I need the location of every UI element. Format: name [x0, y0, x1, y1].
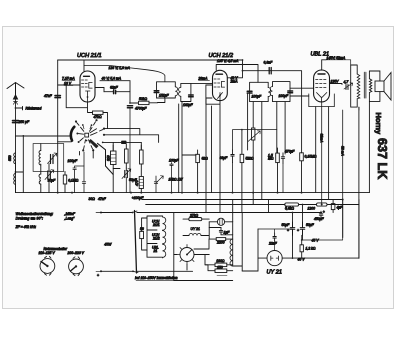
wire tube1 anode feed — [83, 60, 85, 71]
svg-text:61mA: 61mA — [319, 134, 323, 144]
capacitor 6,8nF series — [264, 60, 274, 74]
svg-text:0,1MΩ: 0,1MΩ — [68, 179, 79, 183]
coil 310 — [107, 145, 117, 193]
wire detector verticals — [206, 98, 269, 222]
svg-text:62pF: 62pF — [110, 86, 119, 90]
trimmer pad — [122, 169, 138, 193]
svg-text:UY 21: UY 21 — [191, 227, 200, 231]
wire top rail — [58, 59, 243, 61]
wire speaker return — [368, 101, 370, 192]
svg-text:52 mA: 52 mA — [340, 146, 344, 157]
volume pot — [248, 128, 260, 193]
svg-text:+100μF: +100μF — [132, 196, 144, 200]
label Netzumschalter — [39, 247, 85, 255]
capacitor 100pF det — [169, 159, 180, 193]
svg-text:2mA: 2mA — [230, 80, 239, 84]
capacitor 150pF — [154, 91, 159, 93]
svg-text:28mA: 28mA — [198, 77, 209, 81]
resistor 15k 1W — [156, 176, 183, 183]
wire bottom bus D — [147, 212, 322, 214]
wire grid lead — [57, 60, 59, 193]
label 61mA rot — [319, 102, 323, 205]
svg-text:Horny: Horny — [374, 113, 383, 135]
wire osc box tie — [16, 136, 72, 193]
svg-text:0,15MΩ: 0,15MΩ — [305, 155, 317, 159]
label 135V 4,5mA — [217, 59, 239, 63]
svg-text:1200: 1200 — [308, 206, 316, 210]
svg-text:50kΩ: 50kΩ — [139, 97, 147, 101]
IF transformer 1 — [157, 82, 191, 102]
svg-text:6,8nF: 6,8nF — [264, 60, 274, 64]
capacitor 100pF ifa — [247, 91, 252, 93]
svg-text:6kΩ: 6kΩ — [202, 156, 209, 160]
capacitor padder series — [122, 141, 126, 143]
svg-text:50μF: 50μF — [282, 223, 291, 227]
tube UY21 — [242, 229, 359, 271]
label 145V 52mA — [326, 56, 351, 65]
capacitor 100pF ifb — [288, 91, 293, 93]
wire B+ right — [316, 107, 359, 259]
selector voltage — [177, 245, 197, 265]
capacitor 1uF lamp — [209, 222, 233, 235]
svg-text:„Mittel“: „Mittel“ — [64, 212, 76, 216]
wire heater links — [142, 218, 147, 250]
svg-text:4700pF: 4700pF — [135, 107, 147, 111]
svg-text:ZF = 452 kHz: ZF = 452 kHz — [15, 225, 37, 229]
svg-text:100pF: 100pF — [68, 159, 79, 163]
svg-text:162pF: 162pF — [183, 103, 194, 107]
svg-text:180Ω: 180Ω — [216, 259, 225, 263]
svg-text:„Lang“: „Lang“ — [64, 217, 76, 221]
resistor 27k — [183, 213, 209, 220]
label 40V 5,6mA — [102, 76, 122, 80]
wire osc tap — [103, 141, 142, 143]
svg-text:250 pF: 250 pF — [18, 120, 30, 124]
resistor 180 — [205, 255, 227, 267]
speaker LS — [369, 71, 391, 101]
svg-text:15kΩ 1W: 15kΩ 1W — [169, 178, 184, 182]
resistor 2200 — [209, 228, 233, 267]
coil L2b — [39, 171, 41, 192]
wire switch bottom leads — [80, 150, 94, 158]
node j1 — [129, 102, 131, 104]
capacitor blocking b — [154, 176, 157, 193]
coil L1b — [14, 174, 16, 185]
coil L2 — [39, 151, 41, 165]
rail C — [146, 200, 359, 205]
trimmer 30pF — [45, 170, 56, 183]
svg-text:470: 470 — [135, 180, 139, 186]
svg-text:4,7: 4,7 — [344, 80, 349, 84]
wire IF1 sec down — [181, 102, 183, 156]
resistor 100 vert — [125, 149, 129, 168]
wire to 50k — [116, 92, 138, 103]
svg-text:1μF: 1μF — [224, 230, 231, 234]
node Rueckwand dot — [15, 107, 17, 109]
switch Netz1 — [40, 256, 55, 275]
svg-text:151pF: 151pF — [159, 94, 170, 98]
capacitor 250pF — [13, 121, 19, 123]
svg-text:52kΩ: 52kΩ — [246, 156, 254, 160]
capacitor 162pF — [189, 95, 194, 97]
svg-text:21/2: 21/2 — [152, 237, 160, 241]
svg-text:Rückwand: Rückwand — [26, 107, 42, 111]
svg-text:637 LK: 637 LK — [375, 138, 389, 179]
wire Rueckwand stub — [16, 107, 23, 110]
wire selector ties — [174, 239, 233, 280]
capacitor blocking a — [82, 152, 85, 193]
box UBL21 shield — [309, 94, 335, 107]
wire switch to osc — [104, 129, 159, 143]
resistor 470 vert — [140, 145, 144, 176]
coil L1 antenna — [8, 153, 16, 164]
label 47nF bus — [89, 197, 107, 201]
svg-text:30Ω: 30Ω — [89, 197, 96, 201]
wire right frame — [343, 200, 359, 259]
wire tube1 pins — [58, 85, 104, 113]
svg-text:22nF: 22nF — [268, 241, 278, 245]
capacitor 470uF — [281, 149, 295, 192]
label 52mA rot — [340, 110, 344, 238]
coil UY21 heater — [183, 227, 209, 235]
resistor 1,2k — [300, 240, 316, 258]
resistor 0,15M vert — [300, 153, 317, 193]
band switch S1 — [71, 119, 113, 174]
svg-text:47nF: 47nF — [44, 94, 53, 98]
tone control 4,7nF — [344, 80, 353, 90]
svg-text:50μF: 50μF — [306, 223, 315, 227]
capacitor 47nF — [55, 96, 60, 98]
node antenna plug — [13, 102, 17, 105]
svg-text:1,2 kΩ: 1,2 kΩ — [306, 246, 316, 250]
svg-text:110–125 V: 110–125 V — [39, 251, 56, 255]
wire IF1 pri bottom — [158, 98, 165, 103]
node dots bus — [57, 192, 344, 206]
svg-text:UY 21: UY 21 — [267, 270, 282, 276]
svg-text:47nF: 47nF — [98, 197, 107, 201]
antenna — [7, 83, 24, 100]
resistor 1200 — [308, 203, 328, 210]
resistor 0,1M leak — [63, 171, 78, 192]
IF transformer 2 — [250, 82, 290, 102]
svg-text:45W: 45W — [104, 242, 112, 246]
resistor 150 — [205, 265, 233, 273]
label 7,15mA — [62, 76, 75, 85]
svg-text:470μF: 470μF — [285, 149, 296, 153]
node mains terminal bottom — [96, 270, 133, 277]
capacitor 50uF a — [282, 222, 295, 235]
svg-text:Drehung um 90°:: Drehung um 90°: — [16, 217, 43, 221]
svg-text:47kΩ: 47kΩ — [94, 115, 102, 119]
wire mid horizontals — [113, 142, 141, 170]
svg-text:550: 550 — [8, 155, 12, 161]
resistor 47k — [88, 111, 108, 129]
label kurzschliessen — [135, 276, 227, 281]
svg-text:450μF: 450μF — [314, 217, 325, 221]
wire screen 40V — [100, 81, 130, 92]
label 135V ubl — [331, 80, 340, 84]
ground bus — [16, 192, 370, 194]
svg-text:MΩ: MΩ — [268, 157, 274, 161]
wire switch left arc lead — [58, 141, 72, 143]
svg-text:135V: 135V — [331, 80, 340, 84]
svg-text:+: + — [297, 229, 299, 233]
wire tube2 pins — [191, 60, 258, 155]
tube UCH21/1 — [80, 71, 95, 102]
capacitor 450uF — [314, 210, 325, 221]
resistor 50k — [139, 101, 158, 104]
wire 45V — [302, 235, 343, 240]
svg-text:bei 110–150V kurzschließen: bei 110–150V kurzschließen — [135, 276, 178, 280]
label Wellenschalter text — [15, 212, 76, 229]
svg-text:100pF: 100pF — [279, 94, 290, 98]
node mains terminal top — [96, 212, 133, 214]
svg-text:21: 21 — [153, 249, 158, 253]
switch Netz2 — [69, 257, 84, 276]
switch mains DPST — [132, 211, 193, 274]
coil 470b — [135, 177, 143, 193]
oscillator coil box — [33, 144, 64, 172]
heater chain box — [147, 216, 166, 258]
svg-text:4μF: 4μF — [337, 206, 344, 210]
svg-text:2200: 2200 — [216, 241, 225, 245]
svg-text:100pF: 100pF — [169, 159, 180, 163]
resistor 5,6k — [285, 203, 299, 210]
capacitor 62pF — [114, 90, 116, 93]
capacitor 50uF b — [297, 222, 315, 235]
svg-text:UCH 21/1: UCH 21/1 — [77, 53, 102, 59]
svg-text:5,6kΩ: 5,6kΩ — [285, 206, 294, 210]
wire 50uF ties — [293, 205, 303, 259]
capacitor 100pF mid — [68, 159, 79, 163]
tube UBL21 — [314, 70, 330, 102]
svg-text:145V; 52mA: 145V; 52mA — [327, 56, 346, 60]
svg-text:68μF: 68μF — [220, 156, 229, 160]
wire coil tap — [16, 136, 24, 193]
wire antenna lead — [15, 99, 17, 193]
trimmer C osc — [51, 155, 54, 164]
capacitor 68uF — [220, 130, 277, 193]
rail B — [142, 199, 343, 201]
svg-text:310: 310 — [107, 155, 111, 161]
wire mixer out — [104, 91, 113, 93]
resistor 50ohm heater — [140, 225, 144, 245]
svg-text:+: + — [97, 274, 99, 278]
svg-text:100pF: 100pF — [252, 94, 263, 98]
label 40V b — [230, 76, 239, 84]
svg-text:10 V: 10 V — [64, 81, 72, 85]
svg-text:150: 150 — [217, 266, 223, 270]
svg-text:27kΩ: 27kΩ — [189, 213, 198, 217]
svg-text:200–220 V: 200–220 V — [67, 251, 85, 255]
svg-text:40 V; 5,6 mA: 40 V; 5,6 mA — [102, 76, 122, 80]
svg-text:21/1: 21/1 — [152, 223, 160, 227]
output transformer T1 — [351, 65, 372, 110]
capacitor 4700pF — [127, 106, 132, 193]
lamp dial — [209, 218, 233, 225]
resistor 6k vert — [196, 150, 208, 193]
capacitor 100pF sw — [73, 166, 84, 193]
wire UBL inputs — [290, 84, 342, 97]
tube UCH21/2 — [213, 70, 228, 100]
capacitor 4uF — [331, 200, 343, 213]
wire tube2 anode rail — [242, 59, 244, 61]
wire coupling 6.8nF line — [243, 71, 302, 153]
resistor 1,5M vert — [268, 148, 279, 193]
label 126V — [84, 66, 165, 82]
wire UBL plate — [322, 60, 326, 70]
svg-text:135 V; 4,5 mA: 135 V; 4,5 mA — [217, 59, 239, 63]
svg-text:7,15 mA: 7,15 mA — [62, 76, 75, 80]
svg-text:Wellenschalterstellung:: Wellenschalterstellung: — [16, 212, 54, 216]
svg-text:+: + — [323, 210, 325, 214]
winding heater right — [230, 213, 258, 272]
resistor 52k vert — [240, 129, 254, 193]
capacitor 22nF — [258, 229, 293, 251]
wire avc — [182, 155, 196, 193]
label 28mA — [198, 77, 210, 81]
